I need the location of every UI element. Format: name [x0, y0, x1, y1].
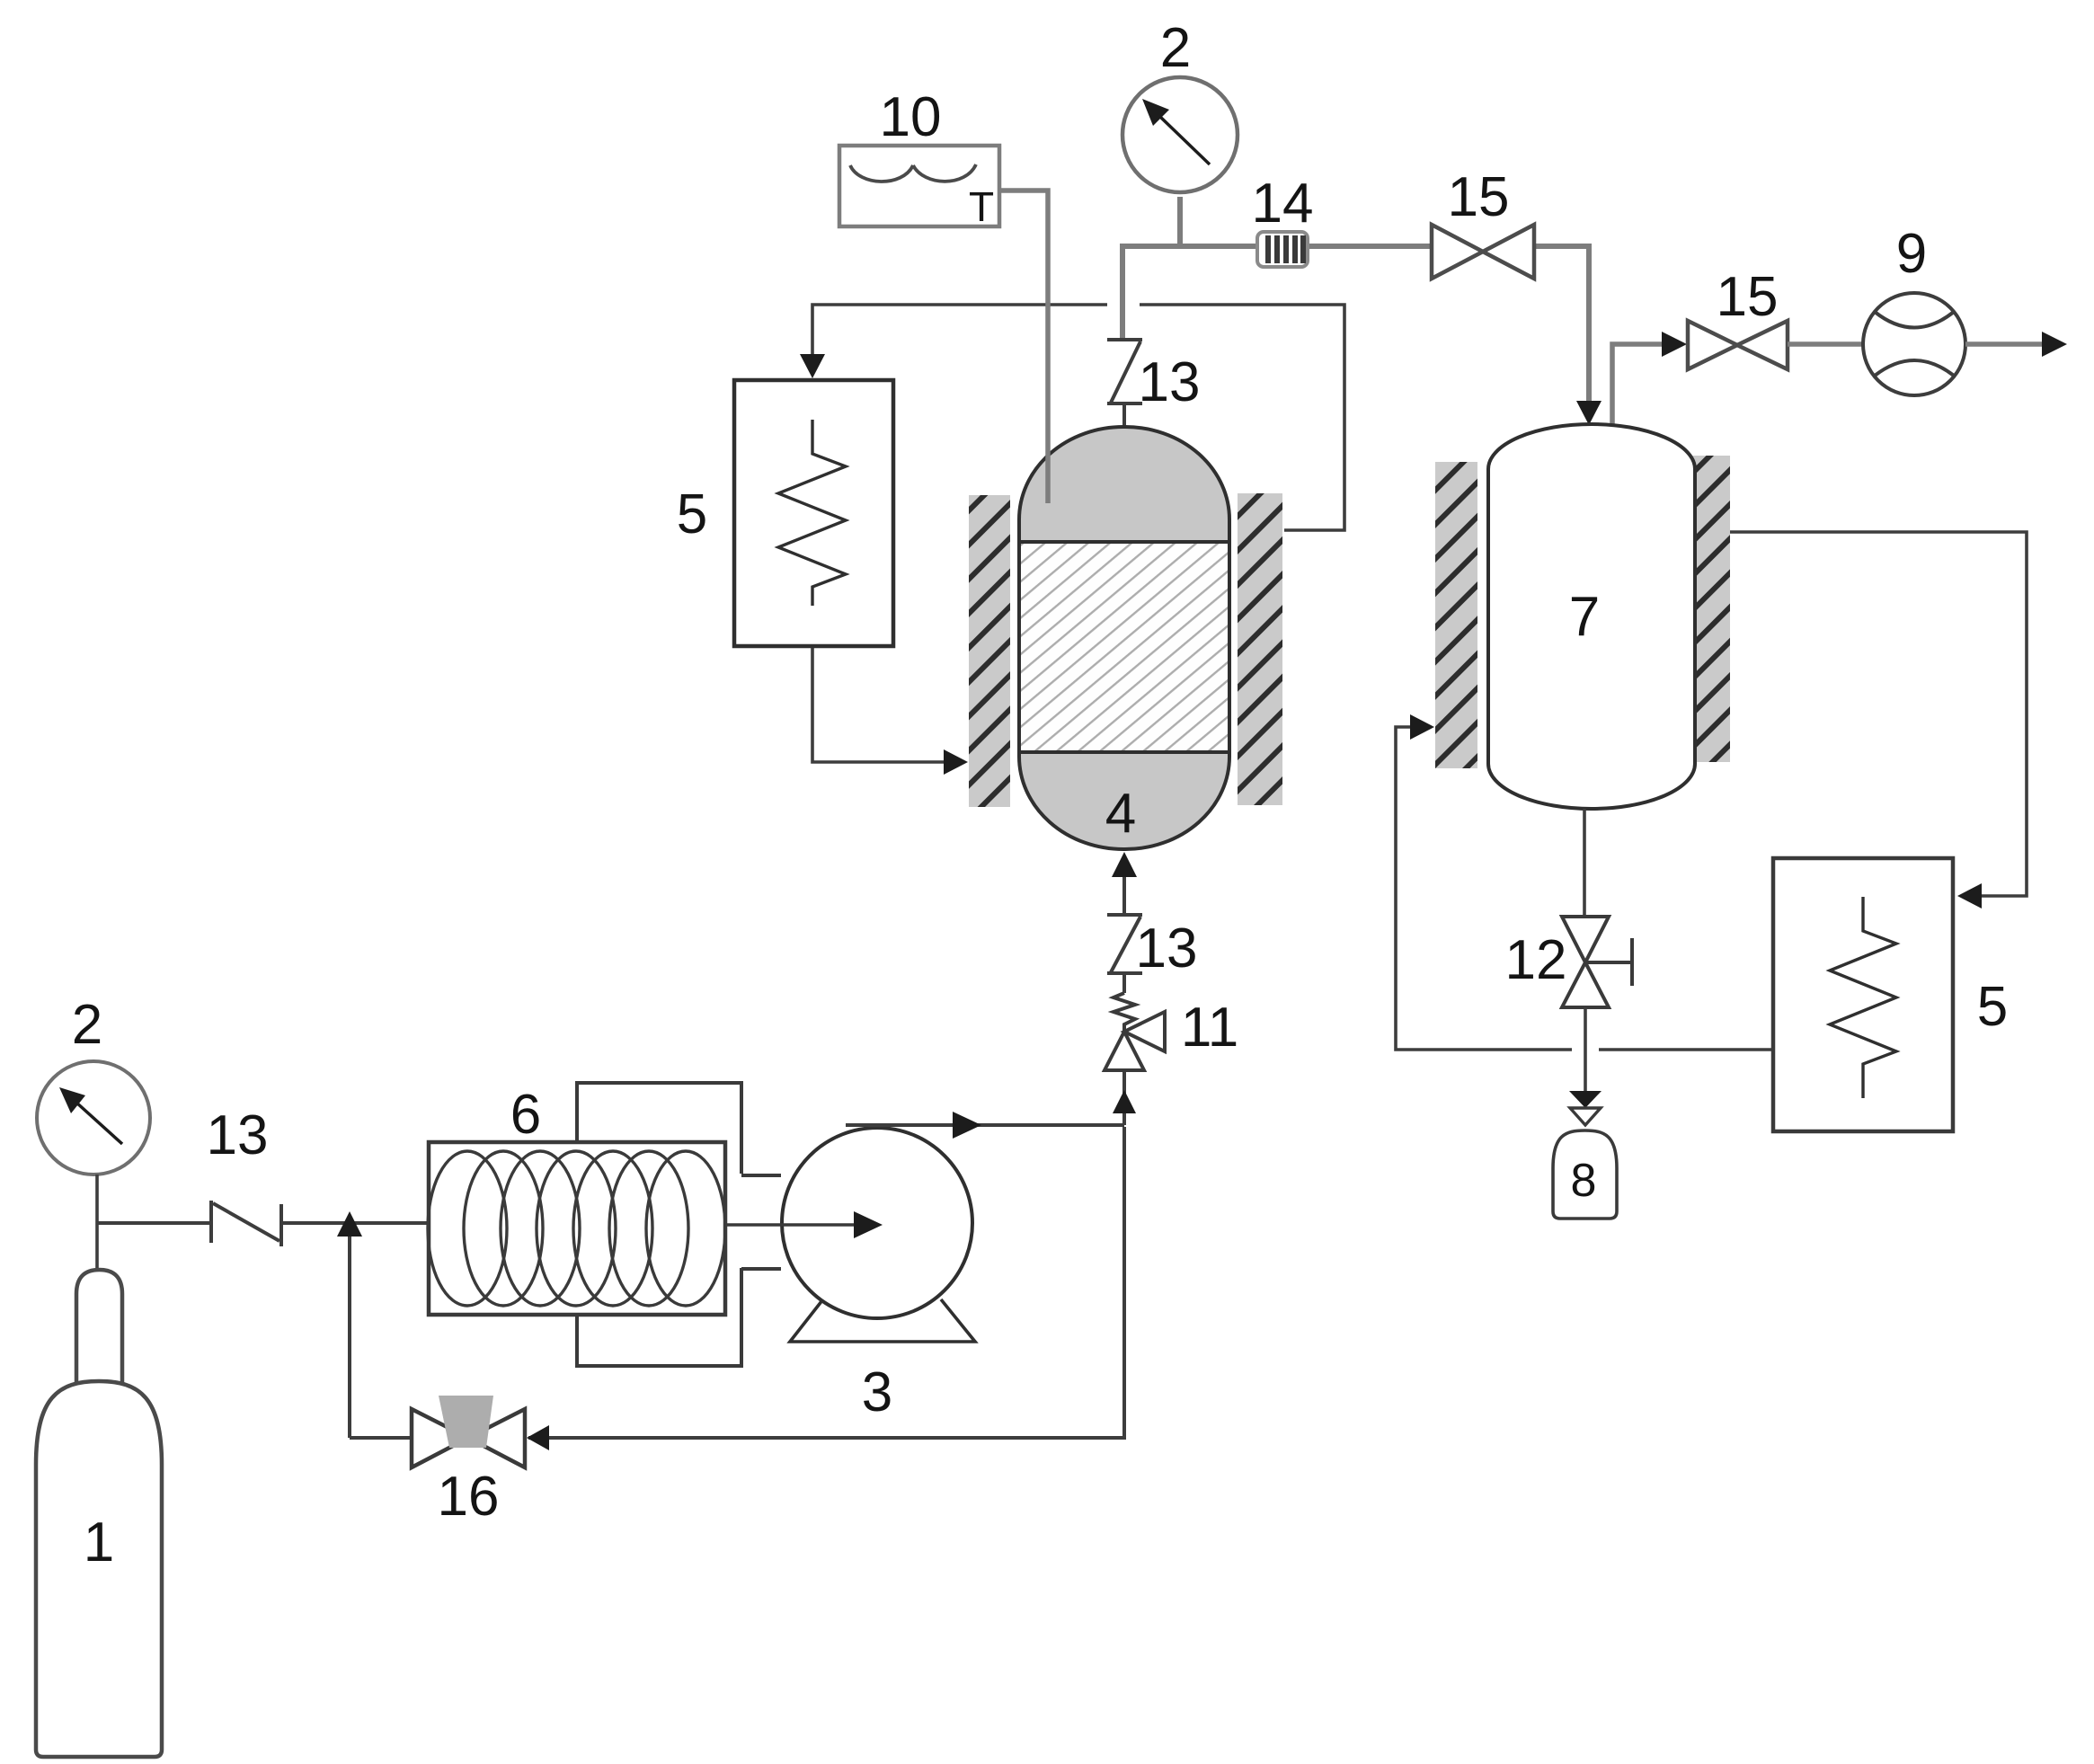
- cooling coil 6 outer shell: [577, 1083, 781, 1366]
- wire: vessel 4 heating loop (top line y=339 and drops): [812, 305, 1344, 762]
- svg-text:13: 13: [207, 1104, 269, 1166]
- collection vial 8: [1553, 1130, 1617, 1219]
- shut-off valve 15 (top): [1432, 166, 1534, 279]
- heating jacket left bar of vessel 7: [1435, 462, 1477, 768]
- wire: controller T signal line down into vessel 4: [999, 191, 1048, 503]
- svg-text:2: 2: [72, 994, 102, 1056]
- wire: arrow into heater 5 top: [800, 354, 825, 378]
- wire: gauge stem into cylinder neck: [95, 1175, 99, 1272]
- wire: riser from pump to valve 11 with arrow: [1113, 1070, 1136, 1125]
- pressure gauge 2 (bottom left): [37, 994, 150, 1175]
- wire: arrow into vessel 7 jacket left: [1410, 714, 1434, 740]
- wire: vessel 7 bottom outlet: [1583, 809, 1586, 916]
- svg-text:8: 8: [1571, 1155, 1597, 1207]
- wire: bypass return line from pump discharge to valve 16: [350, 1127, 1124, 1438]
- heating jacket left bar of vessel 4: [969, 495, 1010, 807]
- shut-off valve 15 (right): [1688, 266, 1788, 369]
- svg-text:9: 9: [1896, 223, 1927, 285]
- node: bypass junction with up arrow: [337, 1211, 362, 1438]
- electric heater 5 (left): [677, 380, 893, 646]
- svg-text:4: 4: [1105, 783, 1136, 845]
- svg-text:7: 7: [1569, 586, 1600, 648]
- svg-text:10: 10: [880, 86, 942, 148]
- wire: valve 12 outlet with double arrow into vial 8: [1569, 1007, 1602, 1125]
- wire: coil to pump suction with arrow: [725, 1211, 883, 1238]
- wire: pump discharge line with arrow: [846, 1112, 1124, 1139]
- svg-text:13: 13: [1136, 917, 1198, 980]
- high pressure pump 3: [782, 1128, 975, 1423]
- heating jacket right bar of vessel 4: [1238, 493, 1282, 805]
- wire: main top pipe from riser corner through filter tee: [1122, 197, 1589, 409]
- svg-text:5: 5: [1977, 976, 2008, 1038]
- check valve 13 (top, above vessel 4): [1107, 340, 1142, 430]
- svg-text:14: 14: [1252, 173, 1314, 235]
- expansion valve 12: [1505, 917, 1632, 1007]
- separation vessel 7: [1488, 424, 1695, 809]
- svg-text:12: 12: [1505, 929, 1567, 991]
- svg-text:5: 5: [677, 483, 707, 545]
- svg-text:16: 16: [438, 1466, 500, 1528]
- svg-text:6: 6: [510, 1084, 541, 1146]
- wire: arrow into valve 16: [527, 1425, 549, 1450]
- cooling coil 6: [428, 1084, 725, 1315]
- check valve 13 (above valve 11): [1107, 868, 1142, 993]
- heating jacket right bar of vessel 7: [1690, 456, 1730, 762]
- gas cylinder 1: [36, 1270, 162, 1757]
- pressure gauge 2 (top): [1122, 17, 1238, 192]
- flow meter 9: [1863, 223, 1965, 395]
- electric heater 5 (right): [1773, 858, 2008, 1131]
- check valve 13 (bottom left): [211, 1201, 281, 1246]
- wire: heater 5 (right) return to vessel 7 jacket: [1396, 727, 1773, 1050]
- wire: arrow into heater 5 (right): [1957, 883, 1982, 909]
- extraction vessel 4: [1019, 427, 1229, 849]
- inline filter 14: [1252, 173, 1314, 267]
- relief valve 11: [1105, 993, 1165, 1070]
- svg-text:13: 13: [1139, 351, 1201, 413]
- wire: vessel 7 recirculation to heater 5 (right): [1730, 532, 2027, 896]
- back-pressure valve 16: [412, 1396, 525, 1528]
- svg-text:3: 3: [862, 1361, 892, 1423]
- svg-text:2: 2: [1160, 17, 1191, 79]
- svg-text:1: 1: [84, 1511, 114, 1573]
- wire: arrow into vessel 4 jacket left: [944, 749, 968, 775]
- svg-text:T: T: [969, 183, 994, 230]
- wire: valve 15 drop into vessel 7 with arrow: [1576, 401, 1602, 425]
- wire: feed line from cylinder to cooling coil: [97, 1221, 429, 1225]
- wire: vent line with arrow (outlet): [1965, 332, 2067, 357]
- wire: valve 15 to flow meter 9: [1788, 341, 1865, 347]
- svg-text:15: 15: [1448, 166, 1510, 228]
- svg-text:15: 15: [1717, 266, 1779, 328]
- svg-text:11: 11: [1181, 997, 1238, 1059]
- temperature controller box 10: [839, 86, 999, 230]
- wire: arrow into vessel 4 bottom: [1112, 852, 1137, 877]
- wire: vessel 7 overhead line to valve 15 (right): [1612, 332, 1687, 430]
